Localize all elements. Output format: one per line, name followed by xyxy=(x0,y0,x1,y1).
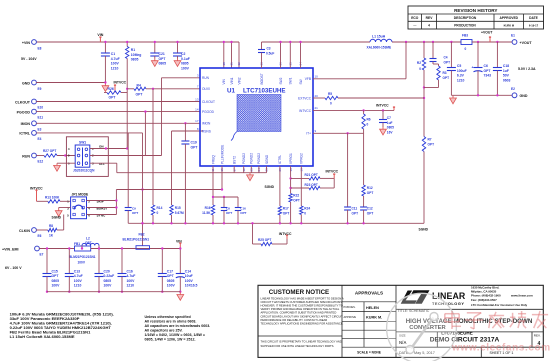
svg-text:XAL6060-153ME: XAL6060-153ME xyxy=(367,46,392,50)
svg-text:CIRCUIT BOARD LAYOUT MAY SIGNI: CIRCUIT BOARD LAYOUT MAY SIGNIFICANTLY A… xyxy=(261,314,344,318)
svg-text:OPT: OPT xyxy=(352,211,359,215)
svg-text:100V: 100V xyxy=(127,279,136,283)
svg-text:R24: R24 xyxy=(304,207,310,211)
svg-text:SGND: SGND xyxy=(419,228,429,232)
svg-text:LINEAR TECHNOLOGY HAS MADE A B: LINEAR TECHNOLOGY HAS MADE A BEST EFFORT… xyxy=(261,297,344,301)
svg-text:L1 15uH: L1 15uH xyxy=(372,35,386,39)
svg-text:APPROVE: APPROVE xyxy=(344,315,357,319)
svg-text:10Meg: 10Meg xyxy=(131,53,142,57)
svg-text:0.1uF: 0.1uF xyxy=(181,57,190,61)
svg-text:4.7uF: 4.7uF xyxy=(111,57,120,61)
svg-text:4.7uF: 4.7uF xyxy=(127,274,136,278)
svg-text:REVISION HISTORY: REVISION HISTORY xyxy=(454,8,497,13)
svg-text:100V: 100V xyxy=(111,62,120,66)
svg-text:R25 OPT: R25 OPT xyxy=(258,238,271,242)
svg-text:100V: 100V xyxy=(104,284,113,288)
svg-text:CIRCUIT THAT MEETS CUSTOMER-SU: CIRCUIT THAT MEETS CUSTOMER-SUPPLIED SPE… xyxy=(261,300,344,304)
svg-text:R2: R2 xyxy=(417,61,421,65)
svg-text:VIN2: VIN2 xyxy=(237,77,241,84)
svg-text:CLKOUT: CLKOUT xyxy=(15,100,31,104)
svg-text:31: 31 xyxy=(230,62,234,66)
svg-text:R26: R26 xyxy=(108,87,114,91)
svg-text:R12: R12 xyxy=(367,186,373,190)
svg-text:SCALE = NONE: SCALE = NONE xyxy=(357,351,381,355)
svg-text:R3: R3 xyxy=(443,71,447,75)
svg-text:6.3V: 6.3V xyxy=(457,74,465,78)
svg-text:OPT: OPT xyxy=(283,211,290,215)
svg-text:DATE: DATE xyxy=(529,16,539,20)
svg-text:+VIN_EMI: +VIN_EMI xyxy=(2,247,18,251)
svg-text:20: 20 xyxy=(315,94,319,98)
svg-text:ICTRL: ICTRL xyxy=(19,132,30,136)
svg-text:5.67M: 5.67M xyxy=(175,211,184,215)
svg-text:INTVCC: INTVCC xyxy=(376,104,389,108)
svg-text:OPT: OPT xyxy=(167,274,175,278)
svg-text:OPT: OPT xyxy=(444,60,451,64)
svg-text:OPT: OPT xyxy=(191,145,199,149)
svg-text:VPRG2: VPRG2 xyxy=(300,153,304,164)
svg-text:LTC Confidential-For Customer: LTC Confidential-For Customer Use Only xyxy=(471,303,528,307)
svg-text:REV.: REV. xyxy=(534,334,541,338)
svg-text:0: 0 xyxy=(465,47,467,51)
svg-text:VFB: VFB xyxy=(305,77,311,81)
svg-text:R7: R7 xyxy=(428,138,432,142)
svg-text:E1: E1 xyxy=(511,34,515,38)
svg-text:0: 0 xyxy=(367,122,369,126)
svg-text:PRODUCTION: PRODUCTION xyxy=(454,24,476,28)
svg-text:10: 10 xyxy=(315,75,319,79)
svg-text:C6: C6 xyxy=(484,64,488,68)
svg-text:C11: C11 xyxy=(352,207,358,211)
svg-text:1210: 1210 xyxy=(457,78,465,82)
svg-text:C19: C19 xyxy=(191,141,197,145)
svg-text:10X16.5: 10X16.5 xyxy=(185,284,198,288)
svg-text:R5: R5 xyxy=(328,92,332,96)
svg-text:100V: 100V xyxy=(185,279,194,283)
svg-text:VERIFY PROPER AND RELIABLE OPE: VERIFY PROPER AND RELIABLE OPERATION IN … xyxy=(261,307,340,311)
svg-text:OPT: OPT xyxy=(240,211,246,215)
svg-text:www.linear.com: www.linear.com xyxy=(510,294,533,298)
svg-text:0: 0 xyxy=(330,102,332,106)
svg-text:BST2: BST2 xyxy=(233,156,237,164)
svg-text:C21: C21 xyxy=(159,52,165,56)
svg-text:OPT: OPT xyxy=(226,211,232,215)
svg-text:+VOUT: +VOUT xyxy=(481,31,493,35)
svg-text:FB3: FB3 xyxy=(462,34,468,38)
svg-text:E2: E2 xyxy=(511,87,515,91)
svg-text:JS202011CQN: JS202011CQN xyxy=(73,169,95,173)
svg-text:OPT: OPT xyxy=(136,93,144,97)
svg-text:OPT: OPT xyxy=(52,274,60,278)
svg-text:0: 0 xyxy=(419,67,421,71)
svg-text:VIN: VIN xyxy=(176,239,182,243)
svg-text:1210: 1210 xyxy=(111,66,119,70)
svg-text:RUN: RUN xyxy=(22,154,30,158)
svg-text:R8: R8 xyxy=(49,224,53,228)
svg-text:100V: 100V xyxy=(78,260,86,264)
svg-text:C13: C13 xyxy=(74,269,80,273)
svg-text:C12: C12 xyxy=(367,207,373,211)
svg-text:Unless otherwise specified: Unless otherwise specified xyxy=(145,315,191,319)
svg-text:INTVCC: INTVCC xyxy=(326,170,339,174)
svg-text:INTVCC: INTVCC xyxy=(114,81,127,85)
svg-text:PCB DES.: PCB DES. xyxy=(344,305,356,309)
svg-text:PGOOD: PGOOD xyxy=(202,110,215,114)
svg-text:KURK M.: KURK M. xyxy=(366,316,382,320)
svg-text:All resistors are in ohms 0603: All resistors are in ohms 0603. xyxy=(145,320,197,324)
svg-text:IT+: IT+ xyxy=(306,132,311,136)
svg-text:REV: REV xyxy=(426,16,434,20)
svg-text:BOOST: BOOST xyxy=(260,73,264,84)
svg-text:R27 OPT: R27 OPT xyxy=(43,149,56,153)
svg-text:L2: L2 xyxy=(86,236,90,240)
svg-text:0805: 0805 xyxy=(387,126,394,130)
svg-text:32: 32 xyxy=(237,62,241,66)
svg-text:0.5uF: 0.5uF xyxy=(266,51,274,55)
svg-text:OPT: OPT xyxy=(132,211,138,215)
svg-text:SW: SW xyxy=(299,79,303,84)
svg-text:OLV0: OLV0 xyxy=(202,87,210,91)
svg-text:13: 13 xyxy=(195,97,199,101)
svg-text:C20: C20 xyxy=(104,269,110,273)
svg-text:RSNS: RSNS xyxy=(202,129,211,133)
svg-text:FREQ: FREQ xyxy=(211,155,215,164)
svg-text:L1 15uH Coilcraft XAL6060-153M: L1 15uH Coilcraft XAL6060-153ME xyxy=(10,334,75,339)
svg-text:0: 0 xyxy=(157,211,159,215)
svg-text:OPT: OPT xyxy=(367,191,374,195)
svg-text:U1: U1 xyxy=(227,88,235,95)
svg-text:SGND: SGND xyxy=(52,215,62,219)
svg-text:E10: E10 xyxy=(38,106,44,110)
svg-text:GND: GND xyxy=(520,94,528,98)
svg-text:E7: E7 xyxy=(40,253,44,257)
svg-text:R23 OPT: R23 OPT xyxy=(305,183,318,187)
svg-text:OPT: OPT xyxy=(293,198,300,202)
svg-text:IMON: IMON xyxy=(21,122,31,126)
svg-text:C5: C5 xyxy=(457,64,461,68)
svg-text:SW1: SW1 xyxy=(289,77,293,84)
svg-text:10uF: 10uF xyxy=(185,274,193,278)
svg-text:1K: 1K xyxy=(49,234,54,238)
svg-text:R13 100K: R13 100K xyxy=(45,195,60,199)
svg-text:17: 17 xyxy=(195,119,199,123)
svg-text:Fax: (408)434-0507: Fax: (408)434-0507 xyxy=(471,298,497,302)
svg-text:PGOOD: PGOOD xyxy=(17,110,31,114)
svg-text:C14: C14 xyxy=(185,269,191,273)
svg-text:0805: 0805 xyxy=(104,279,112,283)
svg-text:C2: C2 xyxy=(181,52,185,56)
svg-text:RUN: RUN xyxy=(202,76,210,80)
svg-text:EXTVCC: EXTVCC xyxy=(298,96,312,100)
svg-text:0805, 1/4W = 1206, 1W = 2512.: 0805, 1/4W = 1206, 1W = 2512. xyxy=(145,338,196,342)
svg-text:APPROVALS: APPROVALS xyxy=(355,290,383,295)
svg-text:CUSTOMER NOTICE: CUSTOMER NOTICE xyxy=(269,289,329,296)
svg-text:R17: R17 xyxy=(283,207,289,211)
svg-text:E11: E11 xyxy=(38,116,44,120)
svg-text:0.22uF: 0.22uF xyxy=(104,274,115,278)
svg-text:21: 21 xyxy=(315,106,319,110)
svg-text:PLLIN/MODE: PLLIN/MODE xyxy=(220,145,224,164)
svg-text:PGND2: PGND2 xyxy=(257,153,261,164)
svg-text:PGND2: PGND2 xyxy=(250,153,254,164)
svg-text:VIN1: VIN1 xyxy=(230,77,234,84)
svg-text:All capacitors are 25V.: All capacitors are 25V. xyxy=(145,329,183,333)
svg-text:OPT: OPT xyxy=(443,76,450,80)
svg-text:100V: 100V xyxy=(181,66,190,70)
svg-text:E12: E12 xyxy=(38,160,44,164)
svg-text:R1: R1 xyxy=(131,48,135,52)
svg-text:VIN: VIN xyxy=(97,33,103,37)
svg-text:E4: E4 xyxy=(38,137,42,141)
svg-text:GND: GND xyxy=(22,81,30,85)
svg-text:R22: R22 xyxy=(293,194,299,198)
svg-text:SGND: SGND xyxy=(265,154,269,164)
svg-text:1210: 1210 xyxy=(127,284,135,288)
svg-text:www.elecfans.com: www.elecfans.com xyxy=(451,343,551,354)
svg-text:100uF: 100uF xyxy=(457,69,467,73)
svg-text:5V - 104V: 5V - 104V xyxy=(21,57,37,61)
svg-text:THIS CIRCUIT IS PROPRIETARY TO: THIS CIRCUIT IS PROPRIETARY TO LINEAR TE… xyxy=(261,340,342,344)
svg-text:30: 30 xyxy=(222,62,226,66)
svg-text:ON: ON xyxy=(99,144,104,148)
svg-text:OPT: OPT xyxy=(85,241,92,245)
svg-text:C4: C4 xyxy=(444,56,448,60)
svg-text:DESCRIPTION: DESCRIPTION xyxy=(454,16,477,20)
svg-text:OPT: OPT xyxy=(109,96,117,100)
svg-text:C3: C3 xyxy=(267,47,271,51)
svg-text:CLKIN: CLKIN xyxy=(19,229,30,233)
svg-text:0603: 0603 xyxy=(503,78,511,82)
svg-text:R6: R6 xyxy=(367,118,371,122)
svg-text:C15: C15 xyxy=(52,269,58,273)
svg-text:APPLICATION. COMPONENT SUBSTIT: APPLICATION. COMPONENT SUBSTITUTION AND … xyxy=(261,311,337,315)
svg-text:R21 OPT: R21 OPT xyxy=(305,173,318,177)
svg-text:VPRG1: VPRG1 xyxy=(289,153,293,164)
svg-text:+VOUT: +VOUT xyxy=(520,41,533,45)
svg-text:SW1: SW1 xyxy=(79,141,86,145)
svg-text:4: 4 xyxy=(428,24,430,28)
svg-text:100V: 100V xyxy=(74,279,83,283)
svg-text:0805: 0805 xyxy=(131,58,139,62)
svg-text:OPT: OPT xyxy=(428,142,435,146)
svg-text:HOWEVER, IT REMAINS THE CUSTOM: HOWEVER, IT REMAINS THE CUSTOMER'S RESPO… xyxy=(261,304,343,308)
svg-text:E3: E3 xyxy=(38,127,42,131)
svg-text:SW2: SW2 xyxy=(279,77,283,84)
svg-text:LTC7103EUHE: LTC7103EUHE xyxy=(243,88,286,95)
svg-text:APPROVED: APPROVED xyxy=(500,16,519,20)
svg-text:OFF: OFF xyxy=(99,162,105,166)
svg-text:100V: 100V xyxy=(52,284,61,288)
svg-text:0805: 0805 xyxy=(167,279,175,283)
svg-text:ICTRL: ICTRL xyxy=(278,155,282,164)
svg-text:R14: R14 xyxy=(157,206,163,210)
svg-text:BLM21PG121SN1: BLM21PG121SN1 xyxy=(69,255,96,259)
svg-text:All capacitors are in microfar: All capacitors are in microfarads 0603. xyxy=(145,324,211,328)
svg-text:SUPPLIED FOR USE WITH LINEAR T: SUPPLIED FOR USE WITH LINEAR TECHNOLOGY … xyxy=(261,344,335,348)
svg-text:R15: R15 xyxy=(175,206,181,210)
svg-text:1/16W = 0402, 1/10W = 0603, 1/: 1/16W = 0402, 1/10W = 0603, 1/8W = xyxy=(145,333,205,337)
svg-text:FB2: FB2 xyxy=(139,232,145,236)
svg-text:BLM21PG121SN1: BLM21PG121SN1 xyxy=(123,237,150,241)
svg-text:0: 0 xyxy=(304,211,306,215)
svg-text:OPT: OPT xyxy=(367,211,374,215)
svg-text:1210: 1210 xyxy=(74,284,82,288)
svg-text:OPT: OPT xyxy=(484,69,492,73)
svg-text:14: 14 xyxy=(195,107,199,111)
svg-text:VIN: VIN xyxy=(222,78,226,84)
svg-text:INTVCC: INTVCC xyxy=(299,109,312,113)
svg-text:TECHNOLOGY APPLICATIONS ENGINE: TECHNOLOGY APPLICATIONS ENGINEERING FOR … xyxy=(261,321,344,325)
svg-text:SGND: SGND xyxy=(265,185,275,189)
svg-text:R16: R16 xyxy=(205,206,211,210)
svg-text:0805: 0805 xyxy=(52,279,60,283)
svg-text:1uF: 1uF xyxy=(503,69,509,73)
svg-text:C17: C17 xyxy=(167,269,173,273)
svg-text:INTVCC: INTVCC xyxy=(279,232,292,236)
svg-text:C18: C18 xyxy=(503,64,509,68)
svg-text:6-19-17: 6-19-17 xyxy=(529,24,539,28)
svg-text:C16: C16 xyxy=(127,269,133,273)
svg-text:1uF: 1uF xyxy=(387,121,393,125)
svg-text:0805: 0805 xyxy=(159,62,167,66)
svg-text:C7: C7 xyxy=(387,116,391,120)
svg-text:E9: E9 xyxy=(38,87,42,91)
svg-text:IMON: IMON xyxy=(202,122,211,126)
svg-text:E6: E6 xyxy=(38,234,42,238)
svg-text:0805: 0805 xyxy=(181,62,189,66)
svg-text:16V: 16V xyxy=(387,130,394,134)
svg-text:JP1 MODE: JP1 MODE xyxy=(72,192,89,196)
svg-text:4.7uF: 4.7uF xyxy=(74,274,83,278)
svg-text:PGND2: PGND2 xyxy=(242,153,246,164)
svg-text:OPT: OPT xyxy=(159,57,167,61)
svg-text:11.5K: 11.5K xyxy=(202,211,211,215)
svg-text:7343: 7343 xyxy=(484,74,492,78)
svg-text:50V: 50V xyxy=(503,74,510,78)
svg-text:+VIN: +VIN xyxy=(22,41,30,45)
svg-text:C1: C1 xyxy=(111,52,115,56)
svg-text:FB1: FB1 xyxy=(74,242,80,246)
svg-text:PERFORMANCE OR RELIABILITY. CO: PERFORMANCE OR RELIABILITY. CONTACT LINE… xyxy=(261,318,328,322)
svg-text:100V: 100V xyxy=(167,284,176,288)
svg-text:5.0V / 2.3A: 5.0V / 2.3A xyxy=(518,67,536,71)
svg-text:CLKOUT: CLKOUT xyxy=(202,100,215,104)
svg-text:E8: E8 xyxy=(38,47,42,51)
svg-text:KURK M: KURK M xyxy=(504,24,514,28)
svg-text:ECO: ECO xyxy=(411,16,419,20)
svg-text:6V - 100 V: 6V - 100 V xyxy=(5,266,22,270)
svg-text:HELEN: HELEN xyxy=(366,306,379,310)
svg-text:R4: R4 xyxy=(137,84,141,88)
svg-text:+: + xyxy=(472,66,474,70)
